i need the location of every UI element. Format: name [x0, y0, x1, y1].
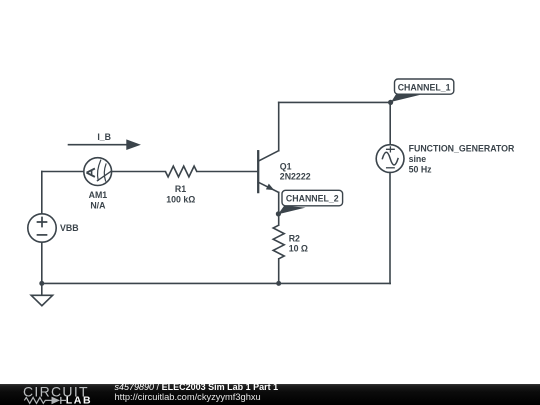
svg-text:10 Ω: 10 Ω: [289, 243, 308, 253]
svg-text:R2: R2: [289, 234, 300, 244]
svg-text:50 Hz: 50 Hz: [409, 165, 433, 175]
svg-text:LAB: LAB: [66, 395, 92, 405]
svg-text:100 kΩ: 100 kΩ: [166, 194, 195, 204]
svg-text:AM1: AM1: [89, 190, 108, 200]
svg-text:sine: sine: [409, 154, 427, 164]
svg-text:N/A: N/A: [90, 200, 106, 210]
svg-text:R1: R1: [175, 184, 186, 194]
svg-text:CHANNEL_1: CHANNEL_1: [398, 82, 451, 92]
svg-text:VBB: VBB: [60, 223, 79, 233]
svg-text:Q1: Q1: [280, 162, 292, 172]
svg-text:CHANNEL_2: CHANNEL_2: [286, 194, 339, 204]
svg-text:2N2222: 2N2222: [280, 171, 311, 181]
svg-text:FUNCTION_GENERATOR: FUNCTION_GENERATOR: [409, 144, 515, 154]
svg-text:I_B: I_B: [97, 132, 111, 142]
